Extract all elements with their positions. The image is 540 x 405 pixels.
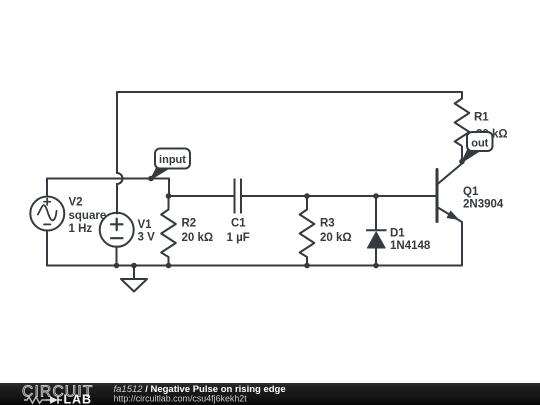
wire top rail <box>117 91 462 93</box>
wire left vertical (V1 plus to top rail) <box>116 92 118 173</box>
wire V2 top <box>46 179 48 197</box>
diode D1 <box>366 196 387 266</box>
node R3 top junction dot <box>304 193 310 199</box>
svg-text:R2: R2 <box>182 218 197 230</box>
svg-text:http://circuitlab.com/csu4fj6k: http://circuitlab.com/csu4fj6kekh2t <box>114 393 248 403</box>
wire bottom rail <box>47 265 462 267</box>
wire input corner down <box>168 179 170 197</box>
node V1 bottom junction dot <box>114 263 120 269</box>
node ground junction dot <box>131 263 137 269</box>
flag out <box>462 132 493 162</box>
node R3 bottom junction dot <box>304 263 310 269</box>
wire V2 bottom <box>46 231 48 266</box>
wire hop over input wire <box>117 173 122 184</box>
svg-text:out: out <box>471 137 488 149</box>
svg-text:V1: V1 <box>138 219 153 231</box>
logo resistor squiggle <box>24 397 46 403</box>
svg-text:2N3904: 2N3904 <box>463 198 504 210</box>
svg-text:LAB: LAB <box>64 393 92 405</box>
svg-text:V2: V2 <box>69 197 83 209</box>
wire V1 bottom <box>116 247 118 266</box>
transistor Q1 <box>437 164 462 223</box>
resistor R3 <box>300 196 315 266</box>
svg-text:20 kΩ: 20 kΩ <box>182 232 214 244</box>
wire mid rail left (to C1) <box>169 195 235 197</box>
svg-text:20 kΩ: 20 kΩ <box>320 232 352 244</box>
node input junction dot <box>148 176 154 182</box>
wire input horizontal <box>47 178 169 180</box>
node D1 bottom junction dot <box>373 263 379 269</box>
flag input <box>151 149 190 180</box>
svg-text:3 V: 3 V <box>138 232 156 244</box>
voltage source V1 (3 V) <box>100 213 134 247</box>
svg-text:1 µF: 1 µF <box>227 232 250 244</box>
wire Q1 emitter down <box>461 222 463 266</box>
resistor R1 <box>455 92 470 146</box>
svg-text:1 Hz: 1 Hz <box>69 223 93 235</box>
wire mid rail right (C1 to Q1 base) <box>241 195 436 197</box>
node D1 top junction dot <box>373 193 379 199</box>
svg-text:C1: C1 <box>231 218 246 230</box>
svg-text:D1: D1 <box>390 228 405 240</box>
logo diode <box>46 396 62 403</box>
wire hop-bottom to V1 top <box>116 184 118 214</box>
node out junction dot <box>459 159 465 165</box>
node R2 top junction dot <box>166 193 172 199</box>
ground <box>121 266 147 292</box>
svg-text:R3: R3 <box>320 218 335 230</box>
svg-text:R1: R1 <box>474 112 489 124</box>
svg-text:1N4148: 1N4148 <box>390 240 431 252</box>
voltage source V2 (square 1 Hz) <box>30 197 64 231</box>
svg-text:Q1: Q1 <box>463 186 479 198</box>
capacitor C1 <box>235 179 242 214</box>
node R2 bottom junction dot <box>166 263 172 269</box>
wire Q1 collector up <box>461 146 463 164</box>
resistor R2 <box>161 196 176 266</box>
svg-text:input: input <box>159 154 186 166</box>
footer bar <box>0 383 540 405</box>
svg-text:square: square <box>69 210 107 222</box>
